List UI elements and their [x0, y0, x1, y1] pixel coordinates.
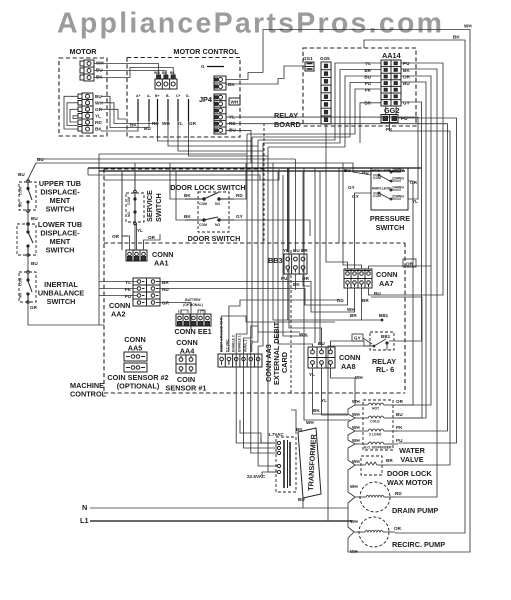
wax motor coil: [355, 462, 388, 465]
water valve coil 1: [355, 403, 398, 405]
wire GG2 PK to wax motor: [388, 123, 450, 466]
svg-text:RD: RD: [236, 193, 243, 198]
svg-text:ENABLE 2: ENABLE 2: [232, 335, 236, 352]
svg-text:DOOR LOCK SWITCH: DOOR LOCK SWITCH: [170, 183, 245, 192]
GY label boxed: [352, 334, 363, 341]
svg-text:BR: BR: [386, 458, 393, 463]
wire JP4 top to WH riser: [226, 73, 263, 80]
wire AA14 OR to conn AA7: [369, 76, 432, 269]
svg-text:1.7VAC: 1.7VAC: [268, 432, 284, 437]
wire AA7 to valve BU riser: [371, 297, 422, 418]
wire phase GR down: [189, 121, 269, 156]
svg-text:GR: GR: [189, 121, 197, 126]
wire BB3 BU up: [294, 159, 296, 252]
svg-text:L1: L1: [80, 516, 89, 525]
recirc pump circle: [359, 517, 389, 547]
svg-text:COM: COM: [19, 278, 23, 286]
wire x88 joint: [87, 168, 89, 175]
control console top edge: [104, 168, 264, 170]
svg-text:WH: WH: [352, 412, 360, 417]
wire bus y163: [36, 163, 371, 175]
svg-text:AA4: AA4: [180, 347, 196, 356]
pressure switch internal main level: [373, 189, 401, 200]
svg-text:MOTOR CONTROL: MOTOR CONTROL: [173, 47, 239, 56]
svg-text:MOTOR: MOTOR: [69, 47, 97, 56]
svg-text:(OPTIONAL): (OPTIONAL): [117, 382, 160, 391]
svg-text:AVAIL 1: AVAIL 1: [244, 339, 248, 352]
svg-text:22AWG: 22AWG: [392, 177, 404, 181]
wire AA7 pin3 down to BB1: [361, 288, 363, 320]
service switch wires: [134, 173, 136, 191]
service switch symbol: [134, 190, 137, 225]
svg-text:A-: A-: [147, 94, 151, 98]
svg-text:RL- 6: RL- 6: [376, 365, 394, 374]
svg-text:BB3: BB3: [268, 256, 283, 265]
svg-text:COM: COM: [127, 197, 131, 205]
svg-text:WH: WH: [154, 71, 160, 75]
wire bus y154: [99, 153, 247, 155]
svg-text:GY: GY: [354, 336, 361, 341]
relay RL-6 dashed box: [370, 332, 394, 350]
wire water valve WH commons: [348, 405, 355, 418]
wire phase A+ to motor BK: [101, 121, 138, 131]
svg-text:AA8: AA8: [341, 362, 356, 371]
recirc pump coil: [354, 530, 395, 532]
wire transformer left feeds step: [240, 420, 277, 443]
conn AA7 connector: [344, 269, 372, 288]
svg-text:BU: BU: [293, 248, 300, 253]
svg-text:CARD: CARD: [280, 352, 289, 373]
svg-text:ENABLE 1: ENABLE 1: [238, 335, 242, 352]
svg-text:YL: YL: [321, 398, 327, 403]
door lock switch upper contact: [185, 193, 234, 201]
svg-text:GY: GY: [348, 185, 355, 190]
svg-text:AA14: AA14: [382, 51, 402, 60]
svg-text:SWITCH: SWITCH: [46, 205, 75, 214]
wire GG5 to AA7 riser: [326, 124, 348, 269]
svg-text:B-: B-: [166, 94, 170, 98]
svg-text:BU: BU: [96, 68, 103, 73]
svg-text:SWITCH: SWITCH: [376, 223, 405, 232]
svg-text:BOARD: BOARD: [274, 120, 301, 129]
svg-text:BK: BK: [293, 282, 300, 287]
svg-text:(-): (-): [178, 309, 181, 313]
svg-text:VALVE: VALVE: [400, 455, 423, 464]
wire bus y171: [99, 170, 405, 172]
svg-text:CONN: CONN: [339, 353, 361, 362]
svg-text:BR: BR: [362, 298, 369, 303]
water valve dashed box: [363, 400, 393, 450]
svg-text:BK: BK: [184, 214, 191, 219]
wire OR branch down: [398, 266, 431, 405]
wire AA2 left feeds: [99, 281, 137, 283]
wire relay contact to wax region: [386, 343, 388, 350]
wire riser x304 to WH chain: [304, 168, 350, 420]
svg-text:CONN EE1: CONN EE1: [174, 327, 211, 336]
svg-text:DOOR SWITCH: DOOR SWITCH: [188, 234, 241, 243]
water valve coil 4: [355, 442, 398, 444]
conn AA1 connector: [126, 250, 147, 261]
svg-text:A+: A+: [136, 94, 140, 98]
svg-text:D-: D-: [186, 94, 190, 98]
svg-text:AA1: AA1: [154, 259, 169, 268]
svg-text:BU: BU: [364, 75, 371, 80]
wire door lock COM lower: [176, 171, 185, 220]
door lock switch dashed box: [198, 192, 229, 232]
svg-text:3 LOAD: 3 LOAD: [369, 433, 382, 437]
svg-text:SENSOR #1: SENSOR #1: [166, 384, 207, 393]
upper tub displacement switch box: [19, 182, 36, 210]
svg-text:RECIRC. PUMP: RECIRC. PUMP: [392, 540, 445, 549]
wire riser x315: [314, 168, 316, 343]
wire BB3 PU down: [287, 274, 289, 320]
svg-text:AppliancePartsPros.com: AppliancePartsPros.com: [57, 8, 442, 40]
svg-text:BB1: BB1: [379, 313, 389, 318]
wire y180 feeder: [104, 169, 279, 180]
svg-text:NO: NO: [19, 202, 23, 207]
wire phase A- to motor BU: [101, 96, 149, 127]
wire AA14 PU right: [369, 63, 444, 295]
wire AA14 to GG2 stubs: [385, 106, 387, 115]
svg-text:YL: YL: [137, 228, 143, 233]
lower tub displacement switch box: [17, 224, 36, 255]
wire GG2 PU to water valve PU: [398, 118, 457, 443]
wire motor GR join: [101, 109, 126, 119]
svg-text:BK: BK: [184, 193, 191, 198]
wire JP4 RD to water valve PK: [226, 124, 448, 431]
JP4 connector upper: [214, 76, 226, 90]
door lock wax motor dashed box: [361, 456, 382, 475]
control console outer dashed box left edge: [103, 169, 105, 393]
wire x122 service riser: [121, 171, 123, 250]
wire AA3 riser steps: [229, 300, 339, 352]
wire AA14 BU left drop: [268, 76, 381, 147]
wire AA14 YL left drop: [258, 63, 381, 140]
svg-text:SWITCH: SWITCH: [47, 297, 76, 306]
svg-text:WH: WH: [306, 420, 314, 425]
svg-text:JP4: JP4: [199, 95, 213, 104]
conn AA2 connector: [133, 278, 160, 306]
svg-text:PK: PK: [396, 425, 403, 430]
inertial switch contacts: [27, 271, 32, 304]
wire WH chain to pumps: [348, 465, 355, 497]
transformer outline badge: [298, 428, 321, 498]
svg-text:RD: RD: [162, 287, 169, 292]
svg-text:GY: GY: [236, 214, 243, 219]
svg-text:BR: BR: [162, 280, 169, 285]
JP4 WH boxed label: [229, 98, 240, 105]
wire left riser x99: [98, 154, 100, 325]
svg-text:WH: WH: [352, 438, 360, 443]
transformer windings: [284, 440, 290, 488]
wire motor P1 WH: [94, 64, 159, 76]
svg-text:NO: NO: [215, 202, 220, 206]
wire AA14 GY to relay: [389, 102, 422, 341]
wire AA7 pin3 riser: [343, 163, 362, 269]
svg-text:RD: RD: [395, 491, 402, 496]
control console bottom dashed edge: [104, 392, 405, 394]
drain pump coil: [355, 495, 396, 497]
drain pump circle: [360, 482, 390, 512]
svg-text:NO: NO: [215, 223, 220, 227]
conn AA8 connector: [308, 347, 335, 368]
svg-text:BR: BR: [301, 248, 308, 253]
service switch dashed box: [126, 193, 144, 222]
door switch lower contact: [185, 217, 234, 221]
svg-text:WH: WH: [350, 549, 358, 554]
JP4 connector lower: [214, 94, 226, 134]
phase terminal bars: [138, 99, 189, 121]
wire BB3 BK down: [303, 274, 310, 286]
svg-text:YL: YL: [309, 372, 315, 377]
svg-text:GG1: GG1: [303, 56, 313, 61]
svg-text:WH: WH: [352, 399, 360, 404]
svg-text:SWITCH: SWITCH: [46, 246, 75, 255]
wire AA14 BK to drain pump: [396, 69, 437, 497]
machine control top dashed edge: [104, 242, 405, 244]
wire AA14 BR row7 drop: [360, 103, 381, 143]
relay RL-6 contact: [364, 339, 388, 347]
svg-text:(OPTIONAL): (OPTIONAL): [183, 303, 203, 307]
motor connector P1 (3-pin): [80, 60, 94, 81]
svg-text:BR: BR: [350, 313, 357, 318]
wire BK outer: [364, 40, 465, 533]
svg-text:HOT: HOT: [372, 407, 380, 411]
svg-text:SWITCH: SWITCH: [154, 193, 163, 222]
water valve coil 3: [355, 429, 398, 431]
svg-text:22AWG: 22AWG: [392, 195, 404, 199]
control console jog edge: [263, 123, 265, 243]
svg-text:PRESSURE: PRESSURE: [370, 214, 410, 223]
svg-text:N: N: [82, 503, 87, 512]
wire door lock COM upper: [170, 163, 185, 199]
conn AA4 connector: [176, 355, 196, 373]
svg-text:BK: BK: [313, 408, 320, 413]
svg-text:PU: PU: [396, 438, 403, 443]
svg-text:22.5VAC: 22.5VAC: [247, 474, 266, 479]
inertial unbalance switch box: [19, 272, 36, 302]
svg-text:BU: BU: [18, 172, 25, 177]
wire L1 riser to relay: [328, 346, 373, 521]
wire bus y175: [88, 175, 260, 180]
wire AA14 BU to water valve: [398, 82, 426, 418]
svg-text:14AWG: 14AWG: [392, 186, 404, 190]
wire transformer right BK: [291, 410, 296, 434]
svg-text:DRAIN PUMP: DRAIN PUMP: [392, 506, 438, 515]
svg-text:BK: BK: [453, 35, 460, 40]
svg-text:OR: OR: [403, 75, 411, 80]
transformer dashed box: [276, 437, 296, 492]
wire door lock RD: [234, 163, 246, 199]
svg-text:OR: OR: [396, 399, 404, 404]
svg-text:AVAIL 2: AVAIL 2: [250, 339, 254, 352]
svg-text:COM: COM: [19, 187, 23, 195]
svg-text:AA7: AA7: [379, 279, 394, 288]
svg-text:NO: NO: [19, 293, 23, 298]
wire WH outer top-right: [263, 30, 470, 553]
control console right dashed edge: [404, 243, 406, 393]
water valve coil 2: [355, 416, 398, 418]
wire transformer bottom BU: [302, 496, 304, 508]
svg-text:BK: BK: [228, 82, 235, 87]
svg-text:COM: COM: [199, 223, 207, 227]
transformer primary pins: [277, 441, 280, 473]
svg-text:GR: GR: [30, 305, 38, 310]
wire AA2 BR right: [159, 282, 355, 313]
wire riser x320: [319, 171, 321, 345]
svg-text:WH: WH: [464, 24, 472, 29]
svg-text:(+): (+): [200, 309, 204, 313]
svg-text:SERVICE: SERVICE: [145, 190, 154, 222]
svg-text:WAX MOTOR: WAX MOTOR: [387, 478, 433, 487]
svg-text:BK: BK: [296, 427, 303, 432]
svg-text:BU: BU: [144, 126, 151, 131]
wire AA14 PK left drop: [247, 89, 381, 134]
wire AA2 RD right: [159, 288, 348, 305]
svg-text:BK: BK: [170, 71, 175, 75]
svg-text:WATER: WATER: [399, 446, 426, 455]
conn AA7 wire labels: [403, 259, 416, 267]
svg-text:BK: BK: [96, 75, 103, 80]
svg-text:COM: COM: [373, 176, 381, 180]
relay board dashed box: [303, 48, 416, 126]
pressure switch box: [371, 168, 408, 210]
svg-text:G: G: [201, 64, 205, 69]
svg-text:COM: COM: [199, 202, 207, 206]
wire pressure OR to water valve OR: [398, 181, 413, 405]
svg-text:GG5: GG5: [320, 56, 330, 61]
svg-text:OR: OR: [394, 526, 402, 531]
svg-text:BATTERY: BATTERY: [185, 298, 201, 302]
wire AA1 pin stubs: [122, 236, 130, 250]
wire BB3 YL up: [287, 168, 289, 252]
wire motor WH join: [101, 103, 158, 124]
svg-text:PU: PU: [403, 61, 410, 66]
motor block dashed box: [59, 58, 107, 136]
svg-text:YL: YL: [365, 61, 371, 66]
wire pressure GY to AA7: [355, 193, 372, 269]
svg-text:CONTROL: CONTROL: [70, 390, 107, 399]
svg-text:BR: BR: [364, 68, 371, 73]
svg-text:RD: RD: [95, 120, 102, 125]
svg-text:OR: OR: [112, 234, 120, 239]
svg-text:WH: WH: [355, 375, 363, 380]
wire GY box to relay pivot: [363, 338, 372, 344]
svg-text:C+: C+: [176, 94, 180, 98]
wire GR out of switch chain: [28, 302, 104, 325]
svg-text:GR: GR: [162, 301, 170, 306]
wire AA14 BR left drop: [263, 70, 381, 144]
motor connector P2 (6-pin): [78, 93, 93, 133]
svg-text:BB1: BB1: [381, 334, 391, 339]
pressure switch internal high level: [373, 171, 401, 182]
svg-text:GG2: GG2: [384, 106, 399, 115]
svg-text:WH: WH: [162, 121, 170, 126]
wire from bundle into switch chain: [28, 163, 36, 181]
svg-text:WH: WH: [96, 61, 104, 66]
svg-text:PU: PU: [365, 81, 372, 86]
svg-text:OR: OR: [148, 235, 156, 240]
svg-text:MAIN LEVEL: MAIN LEVEL: [372, 187, 393, 191]
svg-text:RELAY: RELAY: [274, 111, 298, 120]
svg-text:WH: WH: [231, 100, 239, 105]
svg-text:BU: BU: [298, 497, 305, 502]
wire AA8 pins down: [313, 368, 349, 414]
wire phase YL down: [178, 121, 263, 151]
svg-text:PK: PK: [125, 287, 132, 292]
svg-text:COM: COM: [373, 194, 381, 198]
svg-text:GY: GY: [403, 101, 410, 106]
wire BB3 OR down: [294, 274, 296, 290]
wire JP4 BK to GG1: [226, 66, 305, 84]
wire motor P1 BK: [94, 68, 173, 78]
wire phase RD down: [158, 121, 253, 141]
svg-text:WH: WH: [350, 484, 358, 489]
svg-text:PU: PU: [281, 276, 288, 281]
machine control inner dashed right edge: [290, 250, 292, 393]
svg-text:YL: YL: [95, 114, 101, 119]
svg-text:YL: YL: [125, 280, 131, 285]
svg-text:AA5: AA5: [128, 344, 143, 353]
svg-text:PK: PK: [365, 88, 372, 93]
svg-text:COLD: COLD: [370, 420, 380, 424]
motor internal wire loops: [64, 96, 78, 129]
svg-text:CONN: CONN: [376, 270, 398, 279]
wire service switch top: [134, 163, 136, 191]
svg-text:RD: RD: [337, 298, 344, 303]
wire AA2 GR right: [159, 303, 192, 331]
svg-text:BU: BU: [162, 71, 167, 75]
wire BB3 BR up: [302, 171, 304, 252]
svg-text:NO: NO: [127, 212, 131, 217]
wire bus y159: [37, 158, 295, 160]
conn AA5 connector: [124, 352, 147, 372]
wire riser x339: [338, 168, 340, 243]
wire JP4 YL to pressure switch: [226, 117, 418, 199]
wire door switch GY: [234, 220, 310, 236]
lower tub switch contacts: [27, 223, 33, 257]
wire AA14 PU left drop: [252, 83, 381, 138]
conn EE1 connector: [176, 314, 211, 326]
svg-text:BU: BU: [396, 412, 403, 417]
wire phase WH down: [168, 121, 258, 146]
wire motor P1 BU: [94, 71, 166, 76]
wire JP4 BU drop: [226, 130, 251, 163]
wire AA8 right pin up: [331, 341, 365, 347]
wire center risers to AA8: [273, 163, 300, 320]
svg-text:GY: GY: [352, 194, 359, 199]
battery bracket: [181, 310, 205, 314]
svg-text:DOOR LOCK: DOOR LOCK: [387, 469, 432, 478]
conn AA3 connector strip: [218, 354, 262, 367]
svg-text:B+: B+: [155, 94, 159, 98]
upper tub switch contacts: [27, 180, 32, 213]
svg-text:AA2: AA2: [111, 310, 126, 319]
wire bus y168: [88, 167, 422, 169]
svg-text:PU: PU: [125, 294, 132, 299]
svg-text:N.O. DISPENSER: N.O. DISPENSER: [364, 446, 392, 450]
svg-text:BU: BU: [31, 261, 38, 266]
svg-text:BU: BU: [37, 157, 44, 162]
wire between switches 2-3: [27, 255, 29, 272]
wire between switches 1-2: [27, 211, 29, 224]
svg-text:WH: WH: [352, 425, 360, 430]
motor control dashed box: [127, 58, 240, 138]
